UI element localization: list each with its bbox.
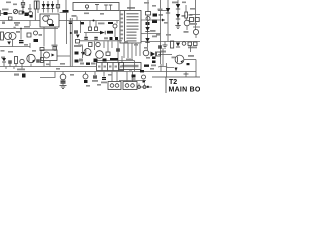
capacitor C29: [94, 37, 98, 40]
transformer T1: [40, 14, 59, 27]
label: [46, 64, 50, 66]
wire: [34, 9, 36, 21]
transistor Q4: [175, 55, 184, 64]
capacitor C1: [4, 12, 8, 15]
label: [126, 59, 133, 61]
pin P2: [95, 5, 99, 11]
diode D7: [176, 43, 180, 48]
label: [80, 22, 84, 24]
wire: [0, 66, 96, 68]
label: [152, 5, 156, 7]
wire: [127, 43, 129, 58]
wire: [20, 29, 22, 40]
wire: [84, 32, 100, 34]
label: [124, 41, 128, 43]
wire: [184, 59, 196, 61]
pin P4: [109, 5, 113, 11]
wire: [131, 43, 133, 58]
label: [80, 63, 84, 65]
transistor Q7: [113, 24, 117, 37]
capacitor C3: [30, 15, 33, 18]
wire: [190, 46, 192, 53]
wire: [0, 46, 30, 48]
label: [108, 74, 112, 76]
wire: [117, 40, 119, 62]
rail: [71, 18, 73, 67]
diode D1: [42, 1, 46, 13]
resistor R11: [188, 42, 192, 46]
resistor R14: [152, 61, 156, 64]
label: [182, 15, 186, 17]
resistor R12: [194, 42, 198, 46]
wire: [119, 80, 146, 82]
label: [79, 59, 83, 62]
wire: [0, 10, 2, 16]
transistor Q1: [27, 54, 35, 66]
wire: [0, 71, 196, 73]
capacitor C32: [132, 75, 136, 80]
label: [52, 45, 58, 47]
resistor R8: [190, 18, 194, 22]
thermistor TH1: [29, 12, 33, 16]
label: [188, 55, 194, 57]
capacitor C27: [95, 21, 98, 31]
label: [140, 70, 144, 72]
resistor R6: [153, 14, 158, 17]
wire: [116, 21, 118, 24]
capacitor C30: [110, 37, 113, 40]
wire: [43, 27, 45, 47]
wire: [111, 42, 113, 49]
wire: [0, 28, 58, 30]
wire: [132, 72, 134, 82]
wire: [0, 13, 12, 15]
capacitor C2: [25, 13, 29, 17]
diode D11: [81, 52, 85, 56]
resistor R4: [27, 33, 31, 37]
capacitor C14: [36, 60, 40, 63]
capacitor C21: [116, 49, 120, 52]
label: [98, 23, 105, 25]
wire: [138, 84, 140, 86]
wire: [14, 10, 17, 13]
label: [160, 51, 166, 53]
label: [72, 15, 77, 17]
label: [188, 47, 197, 49]
wire: [147, 0, 149, 12]
connector J1: [1, 32, 4, 40]
svg-text:MAIN BOARD: MAIN BOARD: [169, 87, 201, 94]
diode D9: [2, 58, 6, 67]
wire: [142, 19, 166, 21]
pin P1: [85, 5, 88, 11]
label: [151, 30, 156, 32]
capacitor C13: [20, 59, 24, 66]
capacitor C19: [94, 59, 98, 63]
wire: [21, 67, 23, 70]
label: [144, 65, 149, 67]
wire: [160, 0, 162, 14]
pin: [138, 86, 141, 89]
resistor R15: [15, 57, 18, 67]
label: [78, 45, 83, 47]
capacitor C4: [19, 40, 24, 41]
label: [158, 9, 163, 11]
label: [56, 68, 60, 70]
label: [2, 9, 9, 11]
label: [146, 57, 150, 59]
diode D13: [100, 31, 105, 35]
capacitor C15: [22, 74, 26, 78]
wire: [158, 10, 168, 12]
resistor R7: [185, 5, 188, 20]
varistor RV1: [13, 9, 17, 13]
label: [108, 22, 113, 24]
resistor R20: [106, 52, 110, 56]
wire: [49, 61, 51, 67]
label: [129, 70, 132, 72]
wire: [0, 20, 40, 22]
wire: [43, 61, 45, 67]
transistor Q3: [84, 49, 91, 57]
resistor R1: [34, 1, 36, 9]
resistor R16: [41, 58, 44, 63]
capacitor C16: [74, 31, 78, 34]
label box: [119, 63, 141, 70]
capacitor C8: [146, 22, 150, 25]
label: [184, 31, 189, 33]
ground: [163, 42, 168, 49]
diode D16: [151, 52, 156, 57]
wire: [158, 66, 174, 67]
label: [104, 37, 108, 39]
wire: [29, 4, 31, 13]
connector J3: [97, 63, 124, 71]
connector J2: [40, 48, 44, 51]
capacitor C20: [103, 59, 107, 62]
capacitor C7: [146, 17, 150, 21]
wire: [158, 54, 172, 56]
label: [150, 68, 154, 70]
resistor R13: [152, 57, 156, 60]
label: [166, 34, 171, 36]
wire: [65, 0, 67, 10]
varistor RV2: [193, 29, 198, 38]
diode D15: [145, 38, 149, 43]
wire: [13, 67, 15, 70]
resistor R19: [89, 43, 93, 47]
ground tap: [184, 72, 189, 78]
label: [8, 51, 13, 53]
label: [151, 65, 156, 67]
diode D4: [166, 0, 170, 42]
wire: [162, 48, 164, 66]
node E: [70, 32, 72, 34]
resistor R3: [19, 11, 23, 14]
inductor L1: [5, 33, 12, 40]
label: [164, 22, 168, 24]
wire: [166, 63, 168, 77]
wire: [195, 60, 197, 78]
wire: [5, 67, 7, 70]
capacitor C12: [8, 61, 12, 67]
capacitor C18: [75, 60, 79, 63]
wire: [141, 41, 200, 43]
label: [172, 57, 176, 59]
wire: [160, 64, 162, 72]
resistor R5: [146, 12, 151, 16]
label: [156, 34, 160, 36]
capacitor C31: [115, 37, 118, 40]
wire: [190, 14, 200, 16]
label: [74, 45, 81, 47]
inductor L1b: [9, 33, 16, 40]
label: [189, 14, 193, 16]
wire: [137, 86, 152, 88]
label: [134, 44, 138, 46]
label: [86, 63, 90, 65]
capacitor C28: [84, 33, 88, 40]
wire: [147, 15, 149, 50]
label: [2, 22, 5, 25]
diode D10: [76, 35, 80, 39]
label: [63, 10, 69, 13]
fuse F1: [9, 17, 13, 20]
label: [17, 69, 25, 71]
wire: [139, 44, 141, 56]
arrow: [162, 19, 165, 22]
board box T2: [152, 77, 200, 93]
label: [16, 31, 20, 33]
node B: [20, 28, 22, 30]
label: [172, 2, 178, 4]
wire: [135, 43, 137, 56]
transistor Q8: [184, 20, 190, 30]
wire: [116, 72, 118, 82]
diode D2: [46, 1, 50, 13]
label: [91, 63, 96, 65]
ground: [60, 84, 67, 89]
capacitor C10: [182, 42, 186, 46]
pin P3: [104, 5, 108, 11]
wire: [121, 56, 123, 63]
diode D3: [51, 1, 55, 13]
wire: [193, 26, 200, 28]
transistor Q6: [60, 72, 66, 80]
wire: [29, 21, 31, 27]
label: [159, 14, 164, 16]
label: [107, 31, 113, 34]
wire: [80, 21, 82, 34]
label: [14, 22, 20, 24]
label: [150, 30, 155, 32]
label: [110, 58, 118, 60]
capacitor C33: [187, 63, 190, 65]
label: [1, 57, 5, 59]
label: [97, 84, 101, 86]
label: [1, 50, 5, 52]
photocoupler PC1: [143, 50, 149, 56]
label: [70, 74, 74, 76]
wire: [96, 60, 135, 62]
wire: [12, 40, 14, 47]
resistor R18: [76, 40, 80, 44]
switch S1: [21, 0, 24, 14]
capacitor C17: [75, 52, 79, 55]
wire: [29, 43, 31, 48]
wire: [160, 14, 162, 64]
label: [86, 85, 90, 87]
wire: [134, 61, 136, 72]
capacitor C5: [34, 39, 39, 42]
diode D6: [176, 14, 180, 19]
capacitor C26: [89, 21, 92, 31]
wire: [111, 72, 113, 82]
diode D14: [145, 27, 149, 32]
resistor R17: [53, 47, 57, 51]
wire: [37, 9, 39, 13]
wire: [57, 55, 70, 57]
label: [182, 2, 186, 4]
label: [84, 13, 89, 15]
node A: [93, 20, 95, 22]
label: [144, 2, 149, 4]
wire: [60, 13, 67, 45]
rail: [69, 18, 71, 67]
label: [127, 7, 135, 9]
capacitor C24: [101, 72, 107, 84]
node C: [177, 23, 179, 25]
IC U1: [120, 11, 141, 44]
svg-text:T2: T2: [169, 79, 177, 86]
label: [60, 63, 65, 65]
diode D5: [176, 0, 180, 25]
transistor Q2: [95, 42, 101, 51]
diode D8: [175, 68, 178, 72]
capacitor C11: [158, 46, 162, 49]
wire: [80, 40, 122, 42]
wire: [142, 33, 161, 35]
ground: [175, 26, 180, 29]
wire: [144, 84, 146, 86]
diac D12: [83, 72, 88, 84]
label: [39, 34, 43, 36]
connector J5: [123, 82, 137, 90]
connector J4: [108, 82, 121, 90]
thermistor TH2: [34, 31, 38, 35]
wire: [126, 72, 128, 82]
wire: [76, 17, 78, 21]
capacitor C4b: [19, 42, 24, 43]
shield box U2: [73, 3, 119, 11]
wire: [103, 42, 105, 49]
label: [24, 44, 28, 46]
wire: [40, 72, 55, 78]
wire: [123, 43, 125, 58]
wire: [82, 46, 84, 58]
resistor R9: [195, 18, 199, 22]
label: [190, 8, 195, 10]
label: [14, 27, 16, 29]
label: [28, 8, 32, 10]
wire: [129, 0, 131, 11]
wire: [107, 41, 109, 52]
transistor Q5: [96, 51, 104, 59]
label: [14, 74, 19, 76]
label: [189, 23, 197, 25]
wire: [54, 27, 56, 51]
capacitor C23: [92, 72, 98, 82]
rail: [195, 0, 197, 30]
resistor R10: [171, 41, 174, 48]
lamp LP1: [142, 75, 146, 83]
label: [24, 26, 30, 28]
capacitor C22: [61, 81, 66, 84]
capacitor C6: [56, 0, 59, 13]
label: [100, 13, 104, 15]
label: [144, 47, 148, 49]
resistor R2: [37, 1, 39, 9]
pin: [143, 86, 146, 89]
label: [152, 36, 157, 38]
wire: [59, 20, 119, 22]
label: [32, 50, 36, 52]
label: [13, 4, 17, 6]
capacitor C9: [152, 20, 157, 24]
resistor R22: [157, 52, 161, 56]
label: [6, 2, 11, 4]
capacitor C34: [69, 22, 72, 25]
node D: [147, 86, 149, 88]
relay K1: [41, 50, 57, 61]
